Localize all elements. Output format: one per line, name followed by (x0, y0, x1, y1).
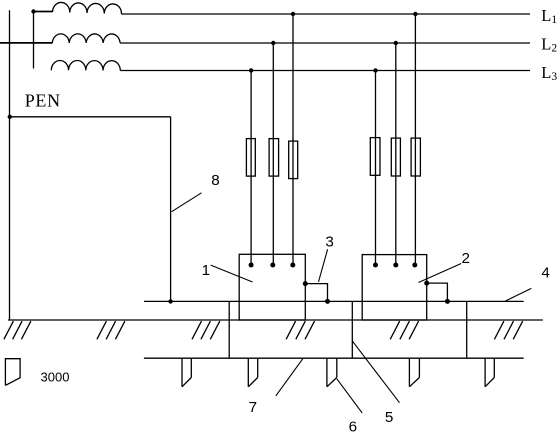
wire feeder 2 phase L3 drop (375, 71, 377, 266)
earth electrode E5 (485, 358, 494, 387)
leader line 8 (172, 193, 202, 212)
ground hatch group 1 (4, 321, 31, 339)
junction dot tap L1 feeder 1 (291, 12, 295, 16)
device box 2 (362, 255, 427, 320)
fuse F4 (370, 138, 380, 176)
fuse F3 (289, 141, 298, 179)
label L3 (541, 63, 557, 83)
junction dot tap L3 feeder 2 (373, 68, 377, 72)
wire feeder 2 phase L2 drop (395, 43, 397, 265)
junction dot box2 PE terminal (424, 281, 429, 286)
wire earthing conductor middle (351, 301, 353, 358)
earth electrode E1 (182, 358, 191, 387)
junction dot PEN tap (8, 115, 12, 119)
terminal dot 2b (393, 263, 398, 268)
leader line 5 (352, 341, 399, 403)
wire feeder 1 phase L2 drop (272, 43, 274, 265)
ground hatch group 6 (494, 321, 522, 339)
label 2 (462, 250, 470, 267)
fuse F5 (391, 138, 400, 176)
legend electrode symbol (5, 359, 20, 386)
ground hatch group 3 (192, 321, 220, 339)
svg-text:5: 5 (385, 409, 393, 426)
earth electrode ring line 7 (144, 357, 524, 359)
svg-text:2: 2 (462, 250, 470, 267)
terminal dot 1b (270, 263, 275, 268)
junction dot L1 star point (31, 9, 35, 13)
terminal dot 2c (412, 263, 417, 268)
svg-text:1: 1 (202, 262, 210, 279)
label 5 (385, 409, 393, 426)
junction dot tap L1 feeder 2 (413, 12, 417, 16)
terminal dot 1a (249, 263, 254, 268)
ground hatch group 2 (97, 321, 125, 339)
fuse F1 (246, 139, 255, 177)
svg-text:PEN: PEN (25, 90, 61, 110)
fuse F2 (269, 139, 279, 177)
label L1 (541, 6, 557, 26)
svg-text:L3: L3 (541, 63, 557, 83)
leader line 2 (419, 264, 462, 283)
wire earthing conductor right (466, 301, 468, 358)
leader line 6 (337, 379, 362, 413)
earth electrode E4 (409, 358, 419, 387)
label 6 (349, 419, 357, 436)
svg-text:6: 6 (349, 419, 357, 436)
earth electrode E2 (248, 358, 257, 387)
leader line 1 (211, 265, 253, 282)
inductor winding L2 (52, 34, 120, 43)
ground hatch group 4 (286, 321, 314, 339)
ground hatch group 5 (390, 321, 418, 339)
earth electrode E3 (327, 358, 337, 387)
wire L1 horizontal phase line (122, 13, 531, 15)
label 3000 (41, 369, 70, 384)
junction dot tap L2 feeder 1 (271, 41, 275, 45)
wire PEN down conductor 8 (170, 117, 172, 302)
terminal dot 1c (290, 263, 295, 268)
junction dot tap L2 feeder 2 (394, 41, 398, 45)
label PEN (25, 90, 61, 110)
svg-text:3000: 3000 (41, 369, 70, 384)
terminal dot 2a (373, 263, 378, 268)
wire feeder 1 phase L3 drop (250, 71, 252, 266)
svg-text:8: 8 (211, 172, 219, 189)
wire PE equalization line 4 (144, 300, 524, 302)
label 3 (325, 234, 333, 251)
svg-text:4: 4 (541, 265, 549, 282)
wire L3 horizontal phase line (120, 70, 530, 72)
label 8 (211, 172, 219, 189)
junction dot box1 PE terminal (303, 281, 308, 286)
inductor winding L3 (51, 60, 120, 70)
leader line 3 (319, 249, 328, 282)
svg-text:L1: L1 (541, 6, 557, 26)
wire L2 left segment (0, 42, 52, 44)
label 1 (202, 262, 210, 279)
wire PEN horizontal branch (10, 116, 171, 118)
fuse F6 (411, 138, 420, 176)
leader line 4 (505, 288, 531, 301)
wire box1 PE step (305, 284, 327, 302)
wire feeder 2 phase L1 drop (414, 14, 416, 265)
svg-text:L2: L2 (541, 34, 557, 54)
wire box2 PE step (427, 283, 448, 301)
junction dot PEN to PE line (168, 299, 172, 303)
earth busbar (8, 319, 543, 321)
svg-text:7: 7 (249, 399, 257, 416)
wire earthing conductor left (228, 301, 230, 358)
leader line 7 (276, 359, 303, 396)
wire star-point vertical (33, 12, 35, 69)
device box 1 (239, 254, 305, 320)
wire L2 horizontal phase line (120, 42, 530, 44)
wire L1 lead from star point (34, 11, 53, 13)
junction dot tap L3 feeder 1 (249, 68, 253, 72)
junction dot box1 PE to PE line (325, 299, 330, 304)
junction dot box2 PE to PE line (445, 299, 450, 304)
label 4 (541, 265, 549, 282)
inductor winding L1 (53, 2, 122, 14)
label 7 (249, 399, 257, 416)
label L2 (541, 34, 557, 54)
svg-text:3: 3 (325, 234, 333, 251)
wire feeder 1 phase L1 drop (292, 14, 294, 265)
wire PEN left vertical conductor (9, 10, 11, 320)
